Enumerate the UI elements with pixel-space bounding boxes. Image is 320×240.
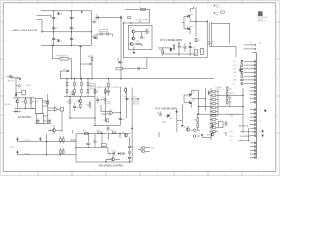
wire ch4 col pair [209,23,211,45]
capacitor C2 [51,27,58,31]
transistor Q11 [122,132,128,137]
junction fuse feed [52,45,53,46]
black mark left [15,94,16,96]
label P103 gray [230,116,233,118]
svg-text:+15V: +15V [233,61,236,63]
wire switch row2 [17,154,76,156]
rail x243 [242,88,244,133]
svg-text:4: 4 [157,174,158,176]
svg-text:J1: J1 [259,51,261,53]
wire u3 [48,108,61,110]
resistor pair bottom [59,148,64,155]
capacitor C23 [128,152,131,153]
resistor column R50-R53 [226,86,232,104]
relay box K2 [36,113,43,123]
svg-text:D3: D3 [96,15,98,17]
resistor R14 [44,101,49,104]
wire fan conn [138,148,142,152]
svg-text:TP: TP [101,97,103,99]
svg-text:3: 3 [191,174,192,176]
svg-text:2: 2 [225,2,226,4]
junction mid bus [71,78,122,79]
label box caps [99,30,108,32]
svg-text:8: 8 [20,2,21,4]
svg-text:+: + [69,16,70,18]
rail x211 [210,88,212,140]
wire top rail opamp supply [41,10,92,12]
wire fuse feed [52,45,59,58]
black component mark [264,110,266,112]
ground ch2 [181,125,184,127]
label SET CH B [239,125,249,127]
svg-text:5: 5 [123,2,124,4]
junction dots opamp supply [41,10,92,46]
wire q6 [17,98,19,109]
arrow dn ch2 [208,90,210,95]
label left gray [8,81,15,83]
power arrow -15V [92,35,97,38]
label 1N4148 gray [26,85,31,87]
wire +35 line [124,22,150,24]
ground symbol opamp supply [79,46,82,48]
svg-text:(GND): (GND) [237,140,242,142]
svg-text:Q13: Q13 [76,101,79,103]
diode D7 [118,152,120,155]
svg-text:C16: C16 [124,97,127,99]
label right top gray [207,41,213,46]
svg-text:C20: C20 [85,144,88,146]
svg-text:R201: R201 [231,93,235,95]
arrow feed [81,11,83,14]
capacitor C10 [99,32,102,36]
capacitor C6 [69,27,76,31]
relay box K1 [35,99,42,114]
svg-text:2: 2 [225,174,226,176]
diode D4 [95,34,97,39]
label top right conn [224,133,228,135]
transistor Q12 [184,127,190,132]
svg-text:R11: R11 [104,120,107,122]
wire gnd drop [80,48,82,79]
boxes small [219,122,224,128]
svg-text:PS BD: PS BD [216,89,220,91]
note text lines [258,16,268,22]
label FLAT gray [4,103,12,106]
svg-text:+: + [69,37,70,39]
dark diode mark [201,134,203,137]
junction muting [25,97,32,109]
svg-text:+: + [69,27,70,29]
label CH 4 V-MODE AMPS [160,39,182,42]
resistor R43 [87,101,91,110]
wire cap pair [97,34,113,37]
connector stub top right 1 [213,5,219,9]
label TO PROTECT gray [111,87,122,89]
svg-text:C3: C3 [56,39,58,41]
svg-text:R10: R10 [107,91,110,93]
wire ch2 out [192,98,206,100]
svg-text:Q7: Q7 [192,93,194,95]
wire r16 [197,114,199,130]
transistor Q10 [207,133,214,136]
capacitor C12 [178,46,184,48]
svg-text:R19: R19 [97,130,100,132]
wire ch2 lower link [177,120,182,122]
svg-text:CH 4 V-MODE AMPS: CH 4 V-MODE AMPS [160,39,182,42]
wire ch4 loop [211,23,230,43]
wire ch4 drain [190,6,196,36]
svg-text:1: 1 [259,174,260,176]
capacitor C11 [105,32,108,36]
svg-text:R3: R3 [197,40,199,42]
svg-text:Q8: Q8 [192,100,194,102]
rail x62 mid [61,111,63,132]
diode D2 [57,40,62,43]
svg-text:-15V: -15V [233,65,236,67]
wire q14 [106,155,120,162]
svg-text:(REMOTE): (REMOTE) [8,81,15,83]
svg-text:4: 4 [157,2,158,4]
wire muting bottom [35,123,51,125]
svg-text:25: 25 [260,157,262,159]
svg-text:R20: R20 [111,130,114,132]
svg-text:10: 10 [260,94,262,96]
rail x47.8 [47,94,49,124]
junction r42 [69,96,70,119]
wire r42 [69,96,71,118]
svg-text:16: 16 [260,121,262,123]
capacitor C22 [128,146,134,148]
wire +15 feed [95,17,121,19]
svg-text:R12: R12 [22,101,25,103]
junction sw [46,141,61,156]
rail V3 [91,11,93,46]
small box top right [221,11,224,13]
wire q15 [48,125,62,134]
connector J1 body top hook [253,51,261,53]
svg-text:+: + [99,32,100,34]
inductor L1 [140,6,146,10]
connector pin circle 2 [193,135,200,138]
rail x123.5 [123,23,125,58]
sheet zone labels [1,2,279,176]
transistor Q13 [76,99,82,102]
capacitor C27 [96,96,99,103]
svg-text:+: + [51,37,52,39]
svg-text:8: 8 [20,174,21,176]
svg-text:DC MUTING: DC MUTING [18,117,31,119]
label boxes ladder [90,83,95,89]
capacitor C21 [94,141,97,148]
svg-text:C2: C2 [56,28,58,30]
resistor R3 [195,38,199,42]
svg-text:Q9: Q9 [170,118,172,120]
arrow down sw2 [39,137,41,142]
wire left feed [10,77,20,98]
resistor R18 [83,131,88,135]
svg-text:C5: C5 [73,18,75,20]
diode D11 [13,110,22,112]
ground reg [133,46,136,54]
resistor pair top [59,136,64,144]
capacitor C15 [70,91,75,94]
svg-text:B: B [1,78,2,80]
svg-text:Q4: Q4 [191,14,193,16]
label DC MUTING [18,117,31,119]
svg-text:1: 1 [259,2,260,4]
svg-text:L1: L1 [140,6,142,8]
transistor Q14 [108,158,115,161]
junction U2 [120,112,121,113]
svg-text:R16: R16 [194,119,197,121]
svg-text:Q12: Q12 [184,127,187,129]
junction left feed [17,77,18,78]
transistor Q1 [132,30,135,33]
svg-text:D5: D5 [64,69,66,71]
rail x146 upper [124,58,208,69]
resistor R10 [105,90,110,94]
svg-text:U1: U1 [130,27,132,29]
capacitor C5 [69,16,76,20]
resistor R20 [111,130,116,134]
svg-text:7: 7 [55,174,56,176]
svg-text:SET CH. B: SET CH. B [239,125,249,127]
svg-text:C22: C22 [131,147,134,149]
svg-text:Q11: Q11 [122,132,125,134]
svg-text:Q6: Q6 [13,98,15,100]
capacitor C34 [184,43,187,52]
note stamp [258,11,263,16]
capacitor C1 [51,16,58,20]
plus mark [16,150,17,152]
transistor Q2 [132,37,135,40]
junction ch4 [195,21,208,22]
arrow dn ch2b [175,109,177,114]
rail x218 [217,90,219,114]
arrow signal left [101,97,107,100]
wire ch2 bus2 [199,113,240,115]
wire q12 [159,126,226,137]
rail center top [64,95,95,97]
sheet border outer [1,1,280,176]
small box right of U3 [60,108,63,111]
sheet zone ticks [1,1,280,176]
label MAIN PS gray [97,86,111,89]
svg-text:+: + [51,16,52,18]
rail ch2 x205 [204,88,206,110]
resistor R19 [97,130,102,134]
resistor R30 [88,56,93,61]
wire bottom center [70,118,120,126]
svg-text:3: 3 [191,2,192,4]
rail x182.3 [181,104,183,125]
transistor Q8 [188,100,195,105]
diode D9 [138,67,147,70]
wire ac feed upper [37,15,52,18]
svg-text:GND: GND [233,72,236,74]
svg-text:Q10: Q10 [207,134,210,136]
arrow branch [81,63,92,65]
svg-text:(TO PROTECT): (TO PROTECT) [111,87,122,89]
capacitor C30 [157,112,162,117]
junction fan [75,147,130,163]
label OPAMP POWER SUPPLIES [12,29,38,32]
arrow above Q10 [211,123,213,129]
wire ch4 gates [182,17,187,29]
svg-text:P201: P201 [216,5,219,7]
svg-text:Q5: Q5 [191,26,193,28]
rail x121 [120,18,122,79]
resistor R9 [94,90,98,94]
resistor R4 [159,49,164,53]
rail V1 [53,11,55,46]
resistor R16 [194,118,199,122]
capacitor C16 [124,97,129,100]
wire fan top rail [76,133,130,135]
resistor R17 [197,124,199,127]
svg-text:PWR—: PWR— [10,147,15,149]
svg-text:R9: R9 [97,91,99,93]
svg-text:1N4148: 1N4148 [26,85,31,87]
wire ac feed lower [37,20,43,32]
svg-text:6: 6 [89,2,90,4]
label +35V [138,22,143,24]
capacitor C9 [140,37,145,39]
svg-text:P202: P202 [216,13,219,15]
transistor Q4 [186,14,193,19]
diode D5 [64,69,69,73]
op-amp U3 [55,106,58,111]
junction ch2 [198,98,206,115]
boxes bottom ch4 [194,48,203,55]
capacitor C32 [7,75,14,78]
label box mid [105,102,110,104]
op-amp U2 [110,110,113,115]
wire ch4 misc [179,42,190,56]
resistor R12 [22,100,27,103]
svg-text:C7: C7 [73,39,75,41]
wire bottom rail opamp supply [41,44,92,46]
wire relay pins [31,101,48,121]
wire fan right [76,128,132,162]
svg-text:C30: C30 [157,113,160,115]
ground ch4 [170,48,173,52]
svg-text:C17: C17 [122,119,125,121]
power arrow +15V [92,20,97,23]
sheet border inner [3,3,276,172]
capacitor C33 [73,103,79,111]
rail x46.5 bottom [46,134,48,155]
label FROM MAIN PS [56,55,68,58]
rail V2 [70,11,72,46]
svg-text:R2: R2 [137,41,139,43]
arrow down sw1 [16,137,18,142]
svg-text:19: 19 [260,132,262,134]
svg-text:+5V RTN: +5V RTN [23,153,29,155]
wire fuse out [68,59,71,79]
rail x126.5 [126,88,128,119]
svg-text:(+35V): (+35V) [138,22,143,24]
svg-text:C13: C13 [192,47,195,49]
resistor network RN1 [210,91,219,133]
svg-text:D1: D1 [60,13,62,15]
junction r16 [197,114,198,115]
svg-text:C15: C15 [70,91,73,93]
svg-text:+35V: +35V [233,69,236,71]
connector stub top right 2 [213,12,219,16]
arrow fan [121,152,125,154]
wire right top [209,44,236,57]
label CH 2 V-MODE AMPS [155,107,177,110]
svg-text:13: 13 [260,109,262,111]
transistor Q3 [130,42,133,45]
rail ch4 right [206,20,208,58]
wire main top rail [125,8,149,10]
svg-text:R42: R42 [67,101,70,103]
junction right links [242,95,243,108]
svg-text:+15V: +15V [93,20,97,22]
diode resistor rows to connector J1 [233,45,250,85]
svg-text:C6: C6 [73,28,75,30]
svg-text:P103: P103 [230,116,233,118]
svg-text:R4: R4 [159,49,161,51]
label gray ch2 [162,121,167,124]
svg-text:U2: U2 [111,110,113,112]
wire r30 [91,55,93,79]
diode D3 [96,15,99,19]
resistor R2 [137,41,141,45]
resistor R42 [67,100,71,103]
junction main [120,17,131,24]
transistor Q9 [166,114,172,120]
capacitor C17 [119,118,125,120]
label box reg [116,67,123,70]
wire ch4 lower left [159,48,171,56]
svg-text:+5V STBY: +5V STBY [23,140,30,142]
svg-text:C1: C1 [56,18,58,20]
wire ch2 drains [192,91,199,115]
svg-text:C12: C12 [181,46,184,48]
svg-text:R43: R43 [87,104,90,106]
svg-text:R14: R14 [44,102,47,104]
svg-text:P105: P105 [230,132,233,134]
svg-text:K1: K1 [37,101,39,103]
svg-text:CH 2 V-MODE AMPS: CH 2 V-MODE AMPS [155,107,177,110]
svg-text:-15V: -15V [93,35,96,37]
svg-text:R50: R50 [229,89,232,91]
connector P1 circle [142,146,154,149]
svg-text:1/4W 5%: 1/4W 5% [258,19,264,21]
resistor R1 [146,30,150,34]
diode D8 [118,58,123,64]
label FAN SPEED CONTROL [99,165,124,168]
wire ch4 bottom link [164,51,197,54]
rail x176.9 [176,114,178,132]
svg-text:+5V: +5V [233,76,236,78]
svg-text:6: 6 [89,174,90,176]
testpoint TP1 [16,85,20,87]
label diodes [112,151,117,153]
resistor ladder R31-R38 [66,78,89,96]
resistor R11 [104,119,109,122]
capacitor C7 [69,37,76,41]
transistor Q6 [13,98,19,103]
resistor R40 [125,87,127,94]
resistor R13 [30,100,35,103]
wire y68.5 [123,68,137,70]
junction ch4b [178,43,191,44]
label J1 [250,42,252,44]
